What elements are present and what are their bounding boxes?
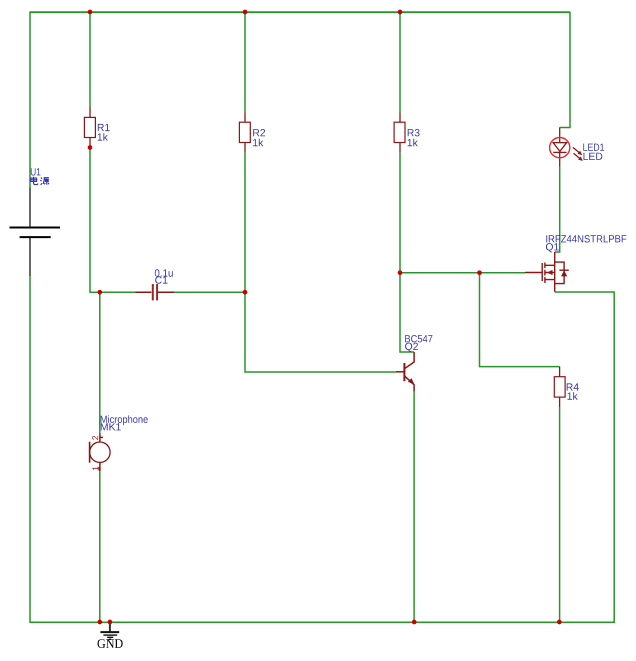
resistor R2 bbox=[239, 112, 250, 152]
wire R2 bottom down to base row bbox=[245, 152, 396, 372]
wire LED to Q1 drain jog bbox=[555, 167, 560, 253]
wire R1 branch top bbox=[89, 12, 91, 107]
resistor R1 bbox=[84, 107, 95, 148]
Q1 body diode triangle bbox=[561, 270, 567, 276]
junction below R1 bbox=[88, 145, 93, 150]
label MK1 bbox=[101, 423, 121, 430]
label Q1 value IRFZ44NSTRLPBF bbox=[546, 235, 626, 242]
wire bottom rail bbox=[30, 621, 615, 623]
junction bottom R4 bbox=[557, 620, 562, 625]
label GND bbox=[98, 639, 123, 648]
wire R3 branch top bbox=[399, 12, 401, 113]
transistor Q2 BC547 bbox=[396, 352, 414, 392]
junction bottom Q2 bbox=[412, 620, 417, 625]
junction gate row R4 bbox=[477, 270, 482, 275]
wire R1 bottom to C1 row bbox=[90, 148, 136, 293]
mic pin number 2 bbox=[92, 436, 98, 440]
resistor R3 bbox=[394, 113, 405, 153]
LED emission arrow 1 bbox=[573, 147, 580, 153]
junction bottom GND bbox=[108, 620, 113, 625]
wire C1 right to R2 branch bbox=[174, 291, 245, 293]
LED circle bbox=[550, 138, 570, 158]
label R4 bbox=[567, 383, 579, 390]
label R1 value 1k bbox=[98, 133, 108, 141]
mic pin 2 tick bbox=[100, 436, 104, 438]
label MK1 value Microphone bbox=[101, 415, 148, 425]
junction top R3 bbox=[398, 10, 403, 15]
mic pin 1 serif bbox=[98, 467, 100, 470]
label R2 bbox=[253, 129, 265, 136]
power symbol GND bbox=[100, 622, 119, 639]
wire R4 branch from gate row bbox=[480, 273, 560, 367]
label Q2 value BC547 bbox=[405, 335, 432, 342]
resistor R4 bbox=[554, 367, 565, 408]
label R3 bbox=[408, 129, 420, 136]
label Q1 bbox=[546, 243, 559, 252]
mic pin number 1 bbox=[93, 467, 99, 471]
wire left rail upper bbox=[29, 12, 31, 188]
junction bottom mic bbox=[97, 620, 102, 625]
junction top R1 bbox=[88, 10, 93, 15]
battery U1 bbox=[10, 188, 61, 277]
LED emission arrow 2 bbox=[574, 153, 581, 159]
label Q2 bbox=[405, 343, 418, 352]
wire R2 branch top bbox=[244, 12, 246, 112]
wire top rail bbox=[30, 11, 570, 13]
label R2 value 1k bbox=[253, 139, 263, 147]
Q1 body arrow bbox=[547, 270, 553, 275]
label LED1 bbox=[583, 144, 604, 151]
label LED value bbox=[584, 153, 603, 160]
Q2 emitter arrowhead bbox=[408, 378, 415, 384]
wire microphone branch lower bbox=[99, 471, 101, 622]
label U1 bbox=[31, 168, 41, 175]
wire R4 bottom bbox=[559, 407, 561, 622]
wire LED branch top bbox=[560, 12, 570, 127]
battery label 电源 drawn as strokes bbox=[31, 177, 49, 185]
mosfet Q1 IRFZ44NSTRLPBF bbox=[525, 252, 569, 292]
wire R3 bottom down to Q2 collector bbox=[400, 153, 414, 353]
junction gate row R3 bbox=[398, 270, 403, 275]
wire gate row bbox=[400, 272, 525, 274]
label R1 bbox=[98, 124, 110, 131]
wire left rail lower bbox=[29, 276, 31, 623]
wire Q2 emitter down bbox=[413, 392, 415, 622]
label R4 value 1k bbox=[568, 392, 578, 400]
junction C1 right bbox=[243, 290, 248, 295]
capacitor C1 bbox=[136, 284, 175, 300]
label C1 bbox=[155, 276, 167, 283]
junction top R2 bbox=[243, 10, 248, 15]
label R3 value 1k bbox=[408, 139, 418, 147]
wire Q1 source to right rail bbox=[555, 292, 615, 623]
LED LED1 bbox=[553, 127, 566, 166]
junction mic top bbox=[97, 290, 102, 295]
wire microphone branch upper bbox=[99, 292, 101, 433]
microphone MK1 bbox=[90, 434, 111, 472]
label C1 value 0.1u bbox=[155, 269, 173, 276]
